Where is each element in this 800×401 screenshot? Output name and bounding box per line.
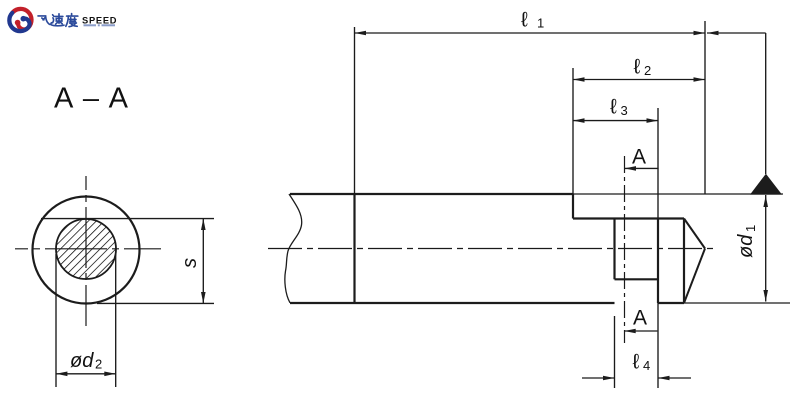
dimension l3	[573, 96, 658, 123]
outer circle d1	[33, 197, 140, 304]
step edge	[572, 194, 574, 219]
shoulder line	[353, 194, 355, 303]
dimension od2	[56, 350, 116, 376]
flat chord line	[41, 218, 214, 220]
l1 outside arrow at right	[707, 31, 766, 174]
svg-text:A: A	[632, 146, 646, 169]
flat top edge	[573, 217, 684, 219]
svg-text:A – A: A – A	[54, 83, 129, 115]
extension line l1 left	[354, 27, 356, 194]
extension line neck left below	[614, 316, 616, 388]
extension line neck right below	[657, 303, 659, 388]
dimension s	[179, 219, 206, 304]
svg-text:ℓ: ℓ	[633, 351, 640, 374]
top extension line for od1	[573, 193, 783, 195]
svg-text:ℓ: ℓ	[521, 8, 528, 31]
dimension od1	[735, 195, 768, 302]
vertical center line	[85, 176, 87, 326]
section arrow A bottom	[624, 307, 657, 334]
cone lower edge	[684, 249, 705, 304]
extension line step	[572, 68, 574, 194]
dimension od2 extension lines	[55, 254, 57, 387]
neck left wall	[613, 219, 615, 280]
break line wavy	[285, 194, 302, 303]
svg-text:1: 1	[537, 16, 544, 31]
svg-text:2: 2	[644, 63, 651, 78]
dimension l2	[573, 56, 705, 82]
extension line tip	[704, 21, 706, 194]
bottom edge right part	[658, 302, 684, 304]
bottom extension line for od1	[684, 302, 790, 304]
extension line neck right above	[657, 108, 659, 219]
dimension l1	[355, 8, 706, 35]
dimension l4	[582, 351, 691, 381]
shaft center line	[268, 248, 717, 250]
cone base	[683, 219, 685, 304]
logo icon swirl	[9, 9, 31, 31]
cone upper edge	[684, 219, 705, 249]
svg-text:SPEED: SPEED	[82, 15, 117, 25]
shaft bottom edge	[290, 302, 615, 304]
svg-text:ℓ: ℓ	[610, 96, 617, 119]
svg-text:s: s	[179, 258, 201, 268]
svg-text:ℓ: ℓ	[634, 56, 641, 79]
shaft top edge	[290, 193, 573, 195]
svg-text:3: 3	[621, 103, 628, 118]
neck bottom edge	[615, 278, 659, 280]
horizontal center line	[15, 248, 161, 250]
bottom extension line for s	[97, 302, 214, 304]
datum triangle	[750, 174, 782, 195]
neck right wall	[657, 219, 659, 304]
logo chinese text 飞速度 (drawn strokes)	[38, 14, 78, 27]
svg-text:4: 4	[643, 358, 650, 373]
section arrow A top	[625, 146, 659, 171]
svg-text:2: 2	[95, 357, 102, 372]
logo subtext	[84, 24, 116, 26]
inner circle d2 hatched	[56, 219, 116, 279]
cutting plane A-A	[624, 156, 626, 343]
svg-text:A: A	[633, 307, 647, 330]
svg-text:ød: ød	[70, 350, 94, 372]
